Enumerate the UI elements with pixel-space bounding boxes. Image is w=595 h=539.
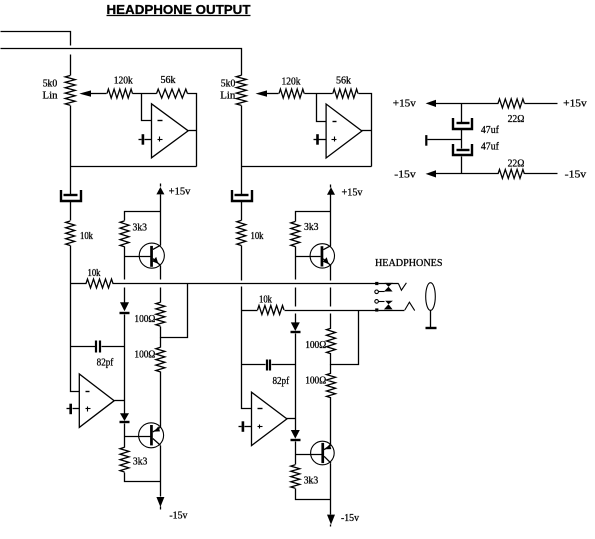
resistor 3k3 (left upper)	[120, 221, 129, 247]
wire node to 82pf and inverting input	[71, 284, 80, 392]
svg-text:3k3: 3k3	[133, 457, 148, 468]
op-amp U3	[79, 374, 114, 427]
wire 10k down (crossover gap at bus1)	[241, 246, 243, 311]
svg-text:10k: 10k	[80, 231, 93, 242]
resistor 10k (right vertical)	[237, 220, 246, 245]
svg-text:100Ω: 100Ω	[134, 314, 155, 325]
svg-text:-15v: -15v	[341, 513, 359, 524]
node circle (right jack NC)	[375, 300, 379, 304]
resistor 3k3 (right upper)	[291, 222, 300, 247]
wire base Q3	[296, 256, 321, 258]
wire op-amp U1 output	[189, 130, 197, 132]
resistor 56k (left)	[157, 89, 188, 98]
capacitor C3 47uf	[457, 122, 470, 124]
svg-text:82pf: 82pf	[272, 376, 289, 387]
wire +15v rail right	[525, 103, 558, 105]
svg-text:82pf: 82pf	[97, 357, 114, 368]
svg-text:120k: 120k	[282, 76, 301, 87]
wire D1 to U3 output node	[124, 347, 126, 401]
potentiometer VR1 5k0 Lin	[65, 76, 75, 106]
wire 3k3 to base node Q3	[295, 247, 297, 257]
resistor 56k (right)	[333, 89, 358, 98]
svg-text:10k: 10k	[259, 294, 272, 305]
svg-text:3k3: 3k3	[304, 475, 319, 486]
wire +15v branch (left)	[125, 212, 161, 221]
op-amp U2	[326, 104, 362, 158]
resistor 22ohm (+15v)	[498, 99, 524, 108]
resistor 10k (left series)	[71, 283, 87, 285]
resistor 3k3 (right lower)	[291, 465, 300, 489]
svg-text:-15v: -15v	[565, 169, 587, 180]
wire bus right channel	[285, 310, 376, 312]
svg-text:+15v: +15v	[169, 187, 191, 198]
wire feedback bottom (right box)	[242, 166, 372, 168]
wire 120k to 56k with tap to inverting input	[133, 93, 157, 95]
wire 10k down to node	[70, 246, 72, 284]
wire Q3 emitter down (crossover gaps)	[330, 266, 332, 329]
wire -15v rail right	[525, 173, 558, 175]
wire C4 to -15v rail	[461, 157, 463, 174]
svg-text:+15v: +15v	[393, 99, 416, 110]
wire pot1 bottom to cap C1	[70, 106, 72, 195]
svg-text:HEADPHONES: HEADPHONES	[375, 258, 443, 269]
svg-text:5k0: 5k0	[43, 78, 58, 89]
svg-text:5k0: 5k0	[221, 79, 236, 90]
transistor Q1 (NPN)	[139, 243, 164, 268]
wire C1 to R 10k	[70, 202, 72, 221]
node square (right channel jack)	[375, 308, 378, 311]
wire +15v rail	[435, 103, 499, 105]
transistor Q2 (PNP)	[139, 423, 164, 448]
wire Q1 emitter down (crossover gap)	[160, 266, 162, 303]
jack tip contact (right)	[405, 302, 415, 310]
wire base Q2	[125, 436, 151, 438]
svg-text:56k: 56k	[336, 76, 351, 87]
wire input B (second horizontal)	[1, 49, 242, 76]
wire U3 output	[115, 400, 125, 402]
svg-text:47uf: 47uf	[481, 142, 500, 153]
op-amp U1	[152, 104, 189, 158]
resistor 3k3 (left lower)	[120, 447, 129, 472]
resistor 22ohm (-15v)	[498, 169, 524, 178]
resistor 100ohm (left lower)	[160, 338, 162, 348]
svg-text:56k: 56k	[161, 75, 176, 86]
node circle (left jack NC)	[375, 290, 379, 294]
wire 100ohm to Q4	[330, 398, 332, 445]
-15v arrow (right)	[327, 515, 335, 525]
wire bus left channel	[113, 283, 376, 285]
jack break contact (right)	[385, 301, 393, 305]
wire 100ohm to Q2	[160, 372, 162, 428]
wire base Q4	[296, 454, 322, 456]
resistor 120k (right)	[279, 89, 304, 98]
wire 120k to 56k with tap (right)	[305, 93, 333, 95]
+15v arrow (right)	[327, 187, 335, 194]
resistor 100ohm (right lower)	[330, 365, 332, 374]
capacitor C2 (electrolytic)	[235, 194, 249, 196]
potentiometer VR2 5k0 Lin	[236, 75, 246, 105]
svg-text:22Ω: 22Ω	[508, 114, 525, 125]
svg-text:3k3: 3k3	[133, 223, 148, 234]
svg-text:10k: 10k	[251, 231, 264, 242]
wire feedback bottom (left box)	[71, 166, 197, 168]
wire D3 to U4 output node	[295, 365, 297, 419]
wire +15v branch (right)	[296, 212, 331, 222]
svg-text:47uf: 47uf	[481, 125, 500, 136]
ground stub (supply)	[428, 139, 462, 141]
wire jack tip (left)	[379, 283, 399, 285]
capacitor 82pf (left)	[71, 346, 96, 348]
resistor 10k (right series)	[242, 310, 258, 312]
ground stub U4 + input	[245, 426, 252, 428]
ground stub U2 + input	[319, 139, 327, 141]
wire base node down (crossover gap)	[124, 257, 126, 303]
wire Q4 collector to -15v arrow	[330, 464, 332, 515]
wiper arrow VR1	[79, 90, 91, 96]
svg-text:Lin: Lin	[43, 90, 58, 101]
-15v supply arrow	[426, 170, 436, 177]
wire 3k3 to -15v node (right)	[296, 489, 331, 500]
jack tip contact (left)	[398, 283, 406, 290]
svg-text:22Ω: 22Ω	[508, 158, 525, 169]
svg-text:-15v: -15v	[394, 169, 416, 180]
+15v arrow (left)	[156, 187, 164, 194]
-15v arrow (left)	[156, 497, 164, 507]
jack break contact (left)	[385, 283, 393, 287]
wire node to 82pf and inverting input (right)	[242, 311, 252, 409]
wire 3k3 to -15v node	[125, 473, 161, 482]
svg-text:100Ω: 100Ω	[134, 350, 155, 361]
resistor 120k (left)	[107, 89, 133, 98]
svg-text:120k: 120k	[114, 76, 133, 87]
capacitor 82pf (right)	[242, 364, 266, 366]
svg-text:+15v: +15v	[342, 187, 363, 198]
svg-text:Lin: Lin	[220, 91, 235, 102]
diode D2	[124, 401, 126, 414]
earpiece symbol	[426, 283, 436, 311]
wiper arrow VR2	[256, 90, 268, 96]
wire 3k3 to base node Q1	[124, 247, 126, 257]
svg-text:100Ω: 100Ω	[305, 340, 326, 351]
wire pot2 bottom to cap C2	[241, 106, 243, 195]
transistor Q4 (PNP)	[311, 441, 335, 465]
diode D1	[120, 302, 129, 311]
wire 56k to feedback corner (right)	[359, 94, 372, 167]
resistor 10k (left vertical)	[66, 221, 75, 246]
node square (left channel jack)	[375, 282, 378, 285]
resistor 100ohm (right upper)	[327, 328, 336, 354]
wire U4 output	[287, 418, 296, 420]
wire base node down (crossover gaps)	[295, 257, 297, 323]
+15v supply arrow	[426, 100, 436, 107]
svg-text:3k3: 3k3	[304, 222, 319, 233]
op-amp U4	[252, 392, 287, 445]
transistor Q3 (NPN)	[310, 244, 334, 268]
wire C3 to C4	[461, 130, 463, 149]
svg-text:10k: 10k	[88, 268, 101, 279]
capacitor C1 (electrolytic)	[64, 194, 78, 196]
ground stub U1 + input	[145, 139, 152, 141]
svg-text:100Ω: 100Ω	[305, 375, 326, 386]
diode D4	[295, 419, 297, 431]
diode D3	[291, 322, 300, 331]
wire input A (top-left)	[1, 32, 71, 76]
capacitor C4 47uf	[457, 149, 470, 151]
wire op-amp U2 output	[362, 130, 372, 132]
wire 56k to feedback corner	[188, 94, 197, 167]
ground stub U3 + input	[73, 408, 80, 410]
svg-text:+15v: +15v	[563, 99, 587, 110]
wire jack tip (right)	[379, 310, 405, 312]
wire 100ohm junction to bus	[161, 284, 188, 338]
resistor 100ohm (left upper)	[156, 302, 165, 326]
wire Q2 collector to -15v arrow	[160, 446, 162, 497]
svg-text:-15v: -15v	[169, 510, 187, 521]
wire rail to C3	[461, 104, 463, 123]
wire C2 to R 10k	[241, 202, 243, 221]
wire 100ohm junction to bus2	[331, 311, 359, 365]
wire -15v rail	[435, 173, 499, 175]
wire base Q1	[125, 256, 151, 258]
svg-text:HEADPHONE OUTPUT: HEADPHONE OUTPUT	[107, 3, 251, 17]
